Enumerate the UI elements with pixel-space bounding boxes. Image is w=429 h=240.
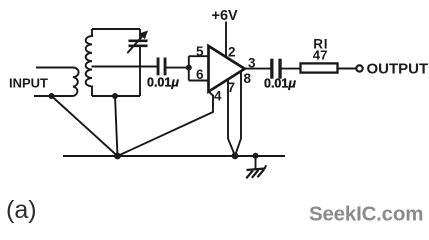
wire tank bottom edge [92,95,140,97]
wire R1 to output terminal [338,68,357,70]
wire input top lead [36,67,73,69]
variable capacitor C1 top lead [139,29,141,40]
svg-text:8: 8 [244,71,252,86]
wire input bracket pins 5-6 [188,56,190,80]
svg-text:0.01μ: 0.01μ [264,77,296,91]
svg-text:OUTPUT: OUTPUT [367,61,429,78]
junction op-amp input node [186,65,192,71]
svg-text:0.01μ: 0.01μ [147,76,179,90]
capacitor C2 [157,58,167,76]
transformer T1 secondary winding L1 [86,29,92,96]
junction ground bus pins 7-8 [232,152,239,159]
wire pin 3 output [244,68,271,70]
junction tank bottom [112,93,118,99]
transformer T1 primary winding [73,68,79,97]
wire pin 5 lead [189,55,209,57]
wire pin 8 lead [235,71,241,156]
wire C3 to R1 [282,68,301,70]
junction ground bus left [114,153,121,160]
output terminal [356,65,362,71]
junction ground bus at ground symbol [253,153,259,159]
svg-text:(a): (a) [6,196,37,224]
wire tank bottom to ground bus [115,96,118,156]
junction input bottom lead [49,93,55,99]
svg-text:SeekIC.com: SeekIC.com [309,203,423,226]
wire pin 7 lead [228,80,235,156]
ground bus wire [63,155,285,157]
wire tank top edge [92,28,140,30]
wire pin 4 lead [118,92,214,156]
svg-text:6: 6 [196,67,204,82]
svg-text:2: 2 [228,45,236,60]
svg-text:+6V: +6V [212,8,239,24]
svg-text:INPUT: INPUT [9,76,48,91]
op-amp U1 [209,46,245,92]
capacitor C3 [270,59,281,79]
ground symbol [246,156,266,179]
variable capacitor C1 [127,31,148,54]
svg-text:5: 5 [196,44,204,59]
wire tank tap to C2 [92,66,158,68]
variable capacitor C1 bottom lead [139,46,141,96]
svg-text:47: 47 [313,48,328,63]
svg-text:4: 4 [214,89,222,104]
wire input to ground bus [52,96,118,156]
wire pin 2 to +6V [225,22,227,58]
wire input bottom lead [34,95,73,97]
wire C2 to op-amp input node [167,67,189,69]
wire pin 6 lead [189,80,209,82]
resistor R1 [301,63,338,72]
